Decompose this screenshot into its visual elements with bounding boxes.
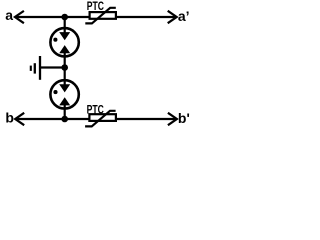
thermistor PTC2 body — [89, 114, 116, 121]
svg-text:a’: a’ — [178, 8, 190, 24]
gas discharge tube F2 envelope — [50, 80, 78, 108]
GDT F2 gas indicator dot — [53, 90, 57, 94]
svg-text:PTC: PTC — [87, 104, 104, 116]
thermistor PTC2 diagonal stroke — [85, 111, 116, 127]
GDT F2 top electrode arrowhead — [59, 84, 70, 92]
wire PTC1 to a' — [117, 16, 176, 18]
terminal arrow b — [15, 113, 24, 125]
wire PTC2 to b' — [117, 118, 176, 120]
wire line a to GDT F1 — [64, 17, 66, 33]
terminal arrow a' — [168, 11, 177, 23]
GDT F1 top electrode arrowhead — [59, 32, 70, 40]
ground symbol short bar — [30, 66, 32, 71]
gas discharge tube F1 envelope — [50, 28, 78, 56]
svg-text:PTC: PTC — [87, 1, 104, 13]
terminal arrow a — [15, 11, 24, 23]
GDT F2 bottom electrode stem — [64, 105, 66, 119]
GDT F2 bottom electrode arrowhead — [59, 97, 70, 105]
junction node on line a — [61, 14, 68, 21]
ground wire — [40, 66, 64, 68]
junction node between GDTs — [61, 64, 68, 71]
GDT F1 gas indicator dot — [53, 38, 57, 42]
ground symbol long bar — [39, 56, 41, 80]
wire a to PTC1 — [16, 16, 90, 18]
wire b to PTC2 — [16, 118, 89, 120]
GDT F1 bottom electrode stem — [64, 53, 66, 68]
GDT F1 bottom electrode arrowhead — [59, 45, 70, 53]
ground symbol middle bar — [34, 63, 36, 73]
terminal arrow b' — [168, 113, 177, 125]
svg-text:b: b — [5, 110, 14, 126]
svg-text:a: a — [5, 7, 13, 23]
wire junction to GDT F2 — [64, 68, 66, 86]
junction node on line b — [61, 116, 68, 123]
svg-text:b': b' — [178, 110, 190, 126]
thermistor PTC1 diagonal stroke — [85, 8, 116, 24]
thermistor PTC1 body — [90, 12, 116, 19]
